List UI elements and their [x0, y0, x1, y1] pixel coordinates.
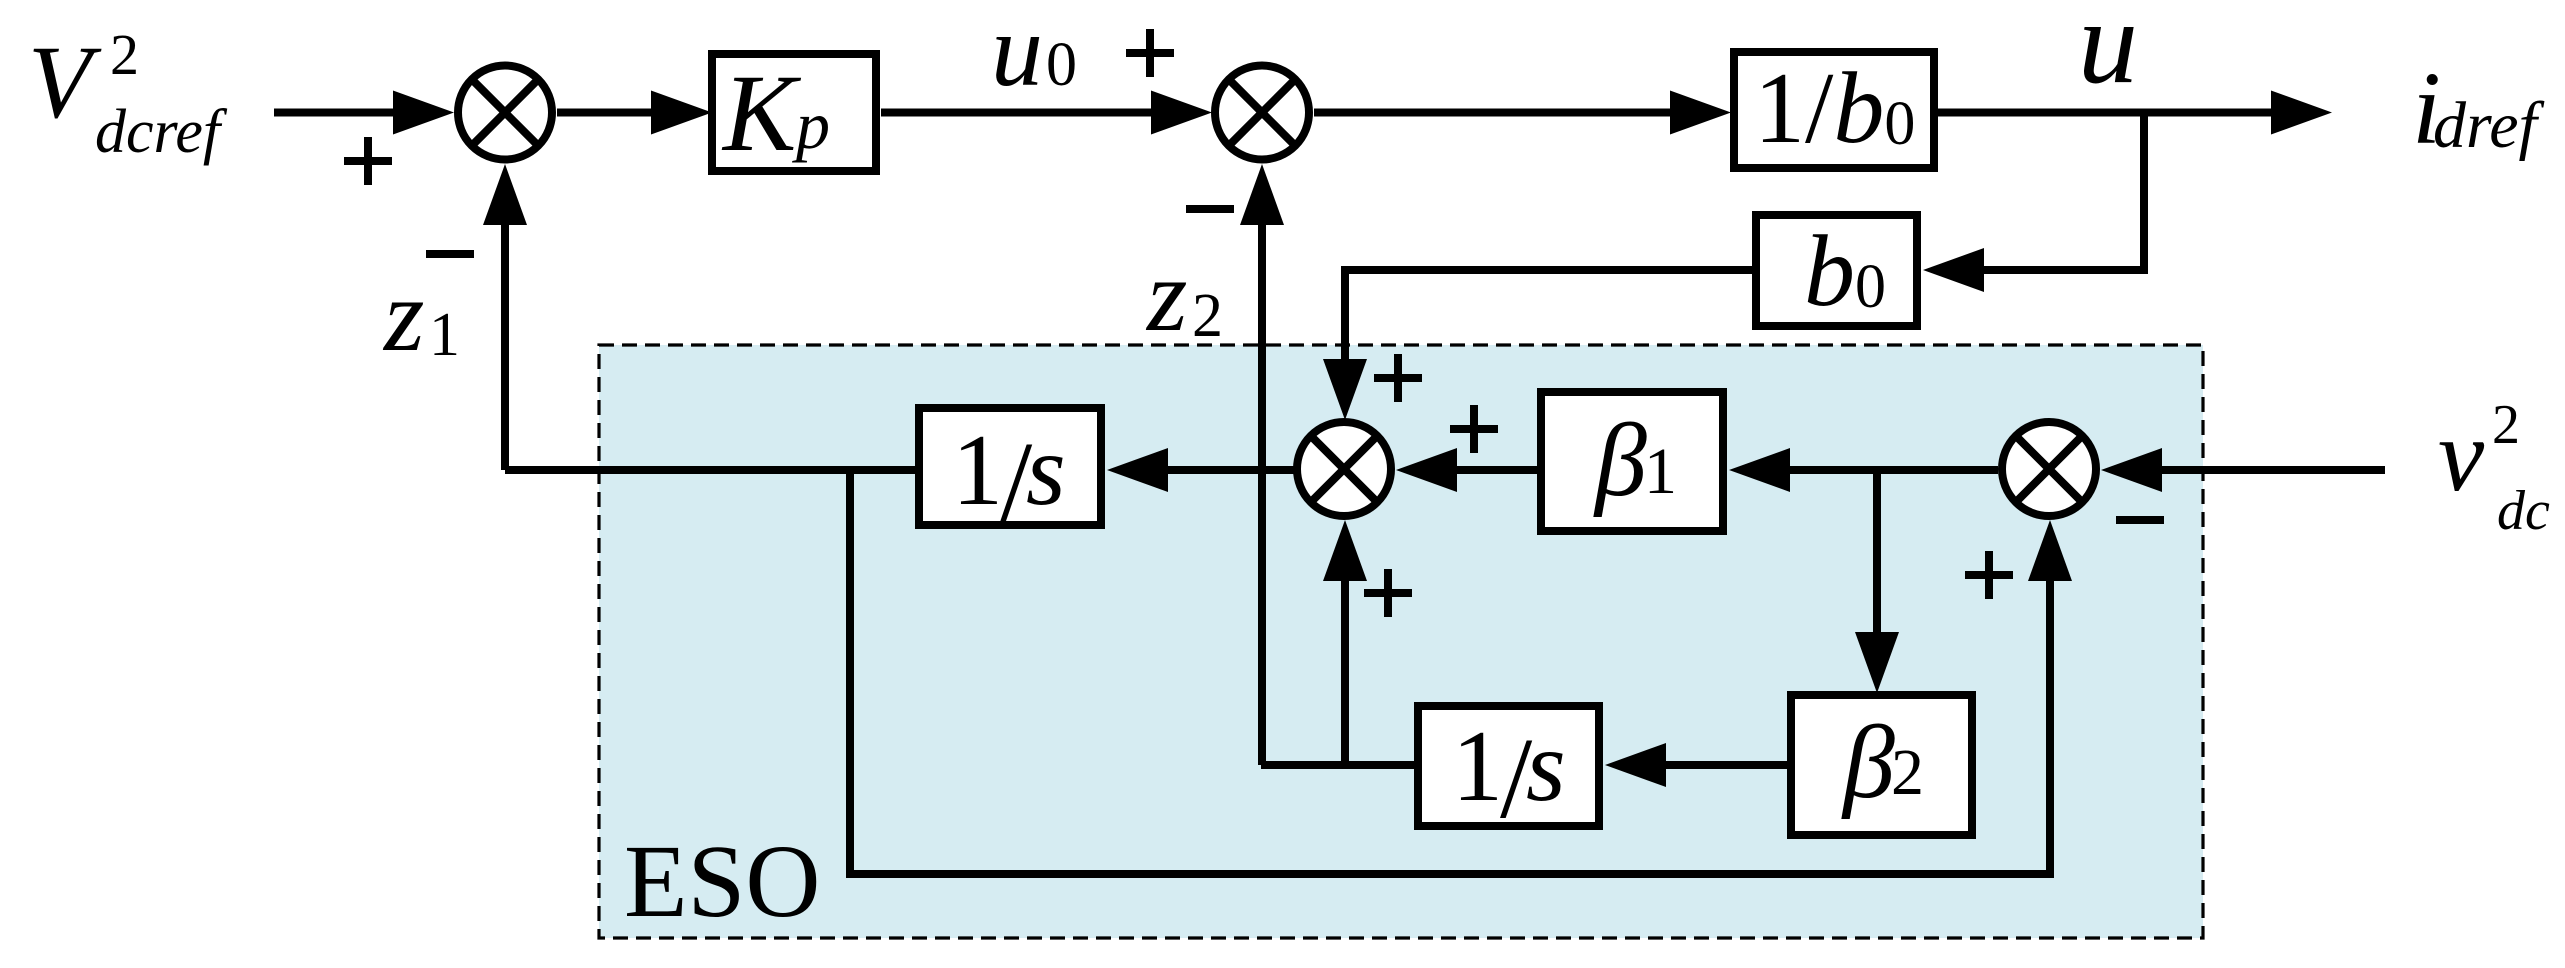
svg-text:idref: idref: [2412, 51, 2545, 166]
svg-text:u0: u0: [991, 0, 1077, 108]
svg-text:u: u: [2078, 0, 2138, 108]
svg-text:ESO: ESO: [624, 824, 820, 939]
svg-text:V2dcref: V2dcref: [28, 22, 228, 166]
svg-text:v2dc: v2dc: [2438, 394, 2550, 542]
svg-text:z1: z1: [382, 258, 460, 373]
svg-text:z2: z2: [1145, 238, 1223, 353]
